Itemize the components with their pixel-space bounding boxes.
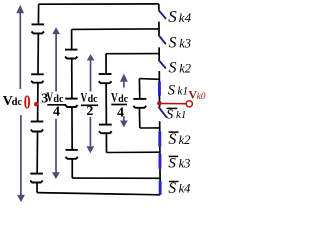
svg-text:V: V: [111, 91, 118, 106]
svg-text:k2: k2: [179, 61, 191, 75]
svg-text:S: S: [169, 35, 177, 52]
svg-text:S: S: [168, 7, 177, 26]
svg-text:k1: k1: [177, 86, 188, 98]
svg-text:4: 4: [117, 105, 124, 120]
svg-text:dc: dc: [53, 94, 64, 105]
svg-text:k3: k3: [179, 157, 191, 171]
svg-text:V: V: [46, 91, 53, 106]
svg-text:2: 2: [86, 104, 93, 119]
svg-text:dc: dc: [118, 94, 129, 105]
svg-text:k0: k0: [197, 92, 206, 102]
svg-text:dc: dc: [12, 97, 23, 108]
svg-text:S: S: [166, 107, 173, 122]
svg-text:S: S: [168, 83, 176, 99]
svg-text:k1: k1: [176, 109, 186, 121]
svg-text:k4: k4: [179, 182, 191, 196]
svg-text:k2: k2: [179, 133, 191, 147]
svg-text:S: S: [168, 131, 176, 148]
svg-text:S: S: [169, 60, 177, 77]
svg-text:S: S: [168, 180, 176, 197]
svg-text:k3: k3: [179, 37, 191, 51]
svg-text:4: 4: [53, 105, 60, 120]
svg-text:0: 0: [24, 92, 31, 114]
svg-text:k4: k4: [179, 10, 192, 25]
svg-text:S: S: [168, 156, 176, 172]
